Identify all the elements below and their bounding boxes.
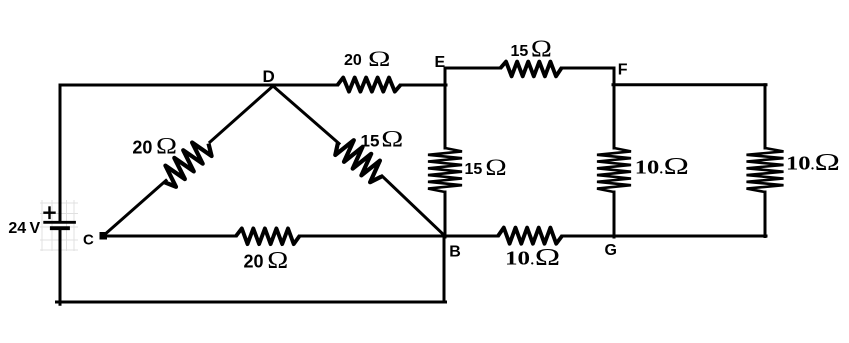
resistor R2 15 ohm (E-B vertical): [428, 148, 462, 192]
resistor R8 20 ohm (C-D diagonal): [164, 143, 212, 187]
wire: F to right branch horizontal: [613, 83, 766, 86]
svg-text:Ω: Ω: [267, 248, 288, 274]
svg-text:24: 24: [8, 220, 26, 237]
svg-text:G: G: [605, 242, 617, 259]
wire: node B leg down to bottom outer wire: [443, 237, 446, 302]
svg-text:Ω: Ω: [381, 127, 403, 152]
wire: left vertical, top corner to battery positive plate: [59, 85, 62, 221]
wire: R2 to node B: [444, 192, 447, 237]
svg-text:20: 20: [344, 52, 362, 69]
wire: F vertical upper, corner to R4: [613, 68, 616, 148]
wire: B to R6 lead: [445, 235, 498, 238]
svg-text:.: .: [660, 163, 664, 178]
faint graph-paper artifact behind battery (decorative): [41, 200, 43, 251]
wire: R4 to node G: [613, 192, 616, 237]
svg-text:Ω: Ω: [531, 37, 552, 63]
svg-text:F: F: [618, 62, 628, 79]
resistor R9 20 ohm (C-B bottom): [236, 228, 300, 244]
resistor R7 15 ohm (D-B diagonal): [335, 140, 381, 182]
svg-text:10: 10: [786, 153, 811, 175]
wire: E vertical upper, corner to R2: [444, 68, 447, 148]
wire: R6 through node G to right branch: [562, 235, 766, 238]
svg-text:20: 20: [244, 252, 264, 272]
resistor R6 10 ohm (B-G bottom): [498, 228, 562, 244]
node C terminal square: [100, 232, 108, 240]
svg-text:Ω: Ω: [156, 134, 177, 159]
svg-text:C: C: [83, 232, 94, 249]
wire: top horizontal, battery branch to node D: [60, 84, 274, 87]
resistor R1 20 ohm (D-E top): [338, 78, 401, 92]
wire: C to R9 lead: [103, 235, 236, 238]
battery V1 24V: long positive plate: [45, 221, 75, 224]
svg-text:Ω: Ω: [535, 245, 561, 271]
resistor R5 10 ohm (right branch vertical): [747, 148, 784, 192]
svg-text:Ω: Ω: [664, 154, 690, 180]
svg-text:.: .: [531, 254, 535, 269]
svg-text:V: V: [30, 220, 41, 237]
wire: R3 to node F: [562, 67, 615, 70]
svg-text:15: 15: [361, 131, 380, 150]
svg-text:10: 10: [505, 248, 530, 270]
svg-text:Ω: Ω: [485, 155, 507, 180]
svg-text:10: 10: [635, 157, 660, 179]
wire: diagonal C to R8 lead: [103, 181, 166, 237]
wire: bottom outer horizontal: [57, 301, 446, 304]
wire: diagonal D to R7 lead: [273, 86, 339, 144]
resistor R4 10 ohm (F-G vertical): [597, 148, 631, 192]
wire: R8 to node D: [210, 86, 273, 142]
resistor R3 15 ohm (E-F top): [501, 62, 562, 77]
wire: R1 to node E: [401, 84, 447, 87]
svg-text:15: 15: [511, 43, 529, 60]
wire: D to R1 lead: [273, 84, 338, 87]
svg-text:Ω: Ω: [815, 150, 841, 176]
wire: R9 to node B: [300, 235, 446, 238]
wire: E-F top lead: [445, 67, 501, 70]
svg-text:Ω: Ω: [368, 46, 391, 71]
svg-text:B: B: [449, 244, 461, 261]
wire: left vertical, battery negative plate to bottom corner: [59, 230, 62, 304]
svg-text:20: 20: [132, 138, 152, 158]
svg-text:15: 15: [465, 161, 483, 178]
battery V1 24V: short negative plate: [52, 226, 68, 230]
wire: right branch vertical lower: [764, 192, 767, 237]
wire: R7 to node B: [382, 176, 445, 236]
svg-text:D: D: [263, 67, 275, 86]
battery plus polarity mark: [45, 211, 55, 213]
wire: right branch vertical upper: [764, 85, 767, 148]
